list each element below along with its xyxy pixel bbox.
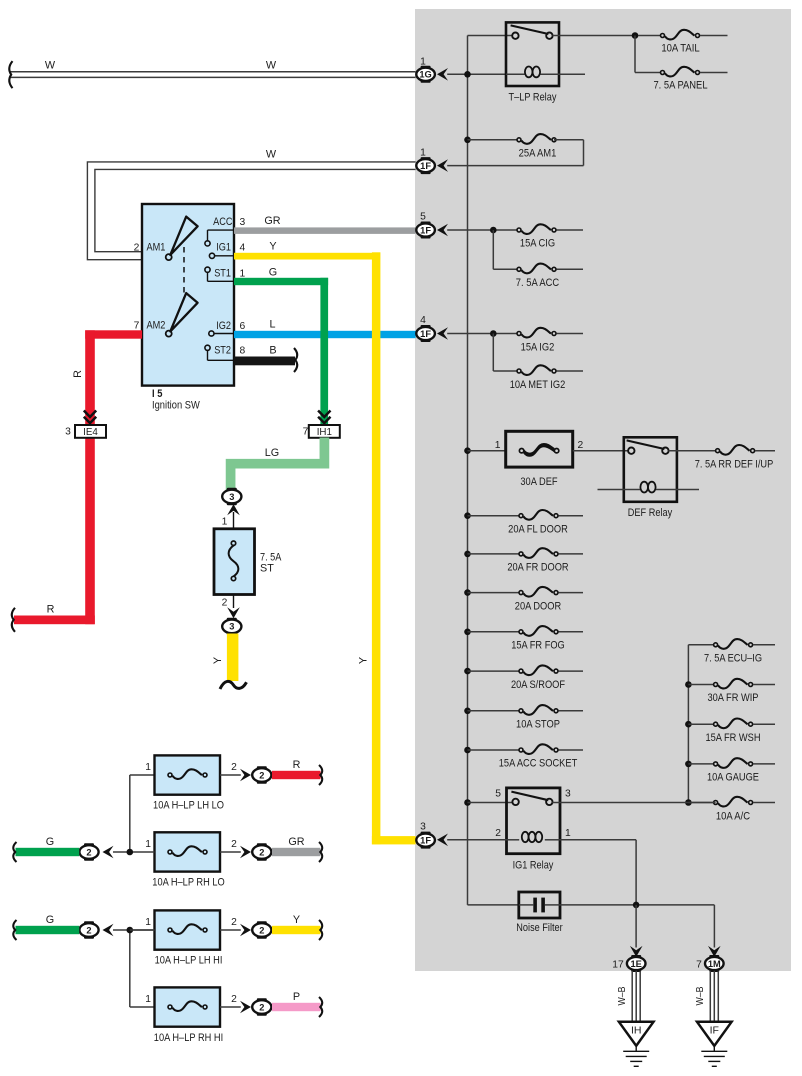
- fuse 15A ACC SOCKET: [523, 744, 553, 754]
- arrow into 1G: [437, 68, 448, 81]
- wire 20A FL DOOR out: [559, 515, 584, 517]
- relay IG1 switch blade: [511, 792, 548, 801]
- connector 1F (pin1): [416, 159, 435, 172]
- wire 10A GAUGE out: [753, 763, 775, 765]
- arrow chevrons into IH1: [318, 411, 330, 424]
- svg-text:30A FR WIP: 30A FR WIP: [708, 692, 759, 704]
- arrow out to right connector (10A H–LP RH LO): [240, 846, 251, 859]
- ignition IG2 contact: [209, 331, 214, 336]
- svg-text:2: 2: [231, 994, 237, 1005]
- svg-text:2: 2: [222, 598, 228, 609]
- wire DEF relay to RR DEF fuse: [668, 450, 717, 452]
- wire Y yellow below oval: [227, 634, 239, 682]
- fuse 20A FL DOOR: [523, 510, 553, 520]
- relay IG1 switch contacts: [512, 799, 518, 805]
- wire column to 10A A/C fuse: [688, 802, 715, 804]
- fuse 10A TAIL: [665, 30, 695, 40]
- ground triangle IF: [697, 1022, 732, 1046]
- connector 2 right (10A H–LP LH HI): [252, 923, 271, 937]
- wire 1F pin5 to CIG fuse: [447, 229, 519, 231]
- svg-text:7: 7: [134, 321, 140, 332]
- ignition ACC contact: [205, 241, 210, 246]
- junction dot trunk/DEF row: [464, 447, 471, 454]
- svg-text:2: 2: [259, 847, 264, 857]
- svg-text:10A H–LP LH LO: 10A H–LP LH LO: [153, 800, 224, 812]
- wire Y continuation squiggle: [220, 681, 247, 689]
- wire trunk to 10A STOP fuse: [468, 710, 522, 712]
- fuse 10A H–LP LH HI element: [172, 924, 202, 934]
- relay DEF switch contacts: [628, 448, 634, 454]
- ground triangle IH: [619, 1022, 654, 1046]
- svg-text:1E: 1E: [631, 959, 642, 969]
- svg-text:LG: LG: [265, 447, 279, 459]
- wire 15A ACC SOCKET out: [559, 749, 584, 751]
- wire ACC fuse out: [557, 268, 584, 270]
- svg-text:IF: IF: [710, 1025, 719, 1037]
- wire relay coil out right: [559, 73, 585, 75]
- svg-text:2: 2: [231, 762, 237, 773]
- svg-text:R: R: [293, 759, 301, 771]
- svg-text:15A ACC SOCKET: 15A ACC SOCKET: [499, 758, 578, 770]
- wire 10A H–LP LH HI right lead: [220, 929, 241, 931]
- wire 20A FR DOOR out: [559, 553, 584, 555]
- svg-text:3: 3: [229, 492, 234, 502]
- junction dot column/30A FR WIP row: [685, 681, 692, 688]
- fuse 15A IG2: [521, 328, 551, 338]
- svg-text:10A GAUGE: 10A GAUGE: [707, 772, 759, 784]
- connector 2 right (10A H–LP RH HI): [252, 1000, 271, 1014]
- svg-text:G: G: [46, 836, 54, 848]
- fuse box 10A H–LP LH LO: [155, 755, 221, 794]
- svg-text:AM2: AM2: [147, 320, 166, 332]
- wire H-LP branch LO pair: [129, 775, 131, 852]
- svg-text:2: 2: [578, 440, 584, 451]
- junction dot MET IG2 branch: [490, 330, 497, 337]
- svg-text:1F: 1F: [420, 835, 431, 845]
- svg-text:3: 3: [229, 622, 234, 632]
- wire trunk corner into noise filter: [468, 904, 519, 906]
- svg-text:IE4: IE4: [83, 427, 98, 438]
- arrow chevrons into IE4: [84, 411, 96, 424]
- wire 20A DOOR out: [559, 592, 584, 594]
- fuse 20A DOOR: [523, 587, 553, 597]
- relay DEF coil leads: [598, 489, 641, 491]
- wire CIG out: [557, 229, 584, 231]
- noise filter leads: [519, 904, 534, 906]
- fuse 10A STOP: [523, 705, 553, 715]
- ignition switch I5 box: [142, 204, 234, 386]
- wire Y stub y930: [272, 926, 321, 934]
- connector 2 left y852: [79, 845, 98, 859]
- wire G curl y930: [13, 920, 16, 940]
- wire 10A H–LP RH HI right lead: [220, 1006, 241, 1008]
- wire 30A FR WIP out: [753, 684, 775, 686]
- wire trunk to 25A AM1 fuse: [468, 139, 520, 141]
- arrow into left connector y930: [103, 924, 114, 937]
- svg-text:1F: 1F: [420, 225, 431, 235]
- svg-text:10A A/C: 10A A/C: [716, 811, 750, 823]
- wire RR DEF fuse out: [755, 450, 775, 452]
- connector 1M: [705, 957, 724, 970]
- arrow up into oval 3: [227, 504, 240, 515]
- svg-text:ST2: ST2: [214, 345, 231, 357]
- svg-text:R: R: [72, 370, 84, 378]
- svg-text:I 5: I 5: [152, 388, 162, 400]
- svg-text:2: 2: [259, 1002, 264, 1012]
- svg-text:1: 1: [145, 762, 151, 773]
- svg-text:2: 2: [259, 925, 264, 935]
- svg-text:3: 3: [565, 789, 571, 800]
- svg-text:5: 5: [495, 789, 501, 800]
- wire LG light-green run: [231, 438, 325, 491]
- svg-text:10A H–LP LH HI: 10A H–LP LH HI: [155, 955, 223, 967]
- svg-text:1: 1: [145, 917, 151, 928]
- wire trunk to 30A DEF: [468, 450, 506, 452]
- svg-text:17: 17: [612, 959, 624, 970]
- ignition ST1 contact: [205, 267, 210, 272]
- wire G green ST1 run: [234, 278, 328, 285]
- fuse 10A A/C: [718, 797, 748, 807]
- wire noise filter out to grounds: [560, 904, 714, 906]
- svg-text:2: 2: [495, 828, 501, 839]
- wire IG1 pin1 down: [560, 839, 636, 841]
- junction dot H-LP branch y852: [127, 849, 134, 856]
- junction dot trunk/AM1 row: [464, 137, 471, 144]
- fuse 7.5A ST box: [214, 529, 255, 595]
- relay T-LP switch contacts: [512, 33, 518, 39]
- relay DEF coil: [640, 482, 648, 493]
- svg-text:1M: 1M: [708, 959, 721, 969]
- noise filter capacitor plates: [533, 898, 537, 913]
- wire trunk to 15A ACC SOCKET fuse: [468, 749, 522, 751]
- svg-text:10A H–LP RH LO: 10A H–LP RH LO: [152, 877, 224, 889]
- junction dot trunk/20A FL DOOR row: [464, 512, 471, 519]
- svg-text:Y: Y: [358, 657, 370, 664]
- wire 20A S/ROOF out: [559, 670, 584, 672]
- wire G green stub y930: [16, 926, 80, 934]
- arrow out to right connector (10A H–LP LH HI): [240, 924, 251, 937]
- relay DEF box: [624, 437, 677, 502]
- wire branch down to PANEL fuse: [634, 36, 636, 73]
- wire 10A STOP out: [559, 710, 584, 712]
- svg-text:2: 2: [231, 917, 237, 928]
- svg-text:10A MET IG2: 10A MET IG2: [510, 379, 566, 391]
- wire GR curl y852: [319, 842, 322, 862]
- svg-text:1: 1: [145, 994, 151, 1005]
- wire R stub y775: [272, 771, 321, 779]
- svg-text:2: 2: [231, 839, 237, 850]
- svg-text:1F: 1F: [420, 329, 431, 339]
- svg-text:1: 1: [495, 440, 501, 451]
- wire P curl y1007: [319, 997, 322, 1017]
- svg-text:30A DEF: 30A DEF: [520, 476, 558, 488]
- relay T-LP coil: [525, 67, 533, 78]
- wire 1F pin3 to IG1 coil: [447, 839, 506, 841]
- wire branch to 7.5A ACC: [492, 230, 494, 269]
- connector oval 3 lower: [222, 620, 241, 634]
- svg-text:10A TAIL: 10A TAIL: [661, 43, 699, 55]
- svg-text:2: 2: [134, 243, 140, 254]
- arrow down into 1E: [630, 946, 643, 957]
- svg-text:W: W: [45, 60, 56, 72]
- fuse box 10A H–LP LH HI: [155, 910, 221, 949]
- svg-text:1G: 1G: [419, 70, 431, 80]
- svg-text:IH1: IH1: [317, 427, 332, 438]
- svg-text:10A H–LP RH HI: 10A H–LP RH HI: [154, 1032, 223, 1044]
- fuse 20A FR DOOR: [523, 548, 553, 558]
- arrow into 1F pin1: [437, 159, 448, 172]
- arrow into 1F pin4: [437, 327, 448, 340]
- svg-text:6: 6: [240, 321, 246, 332]
- svg-text:1: 1: [145, 839, 151, 850]
- junction dot column/10A A/C row: [685, 799, 692, 806]
- relay T-LP coil leads: [506, 73, 525, 75]
- svg-text:20A DOOR: 20A DOOR: [515, 600, 562, 612]
- connector oval 3 upper: [222, 490, 241, 504]
- fuse/relay box panel: [415, 9, 791, 971]
- svg-text:7. 5A RR DEF I/UP: 7. 5A RR DEF I/UP: [695, 459, 774, 471]
- fuse 7.5A PANEL: [665, 67, 695, 77]
- svg-text:1: 1: [420, 148, 426, 159]
- fuse 10A H–LP LH LO element: [172, 769, 202, 779]
- connector IH1 box: [309, 425, 340, 438]
- connector 1G: [416, 68, 435, 81]
- wire 10A A/C out: [753, 802, 775, 804]
- junction dot trunk/20A DOOR row: [464, 589, 471, 596]
- fuse 7. 5A ECU–IG: [718, 639, 748, 649]
- svg-text:8: 8: [240, 346, 246, 357]
- svg-text:7. 5A PANEL: 7. 5A PANEL: [653, 80, 707, 92]
- svg-text:P: P: [293, 991, 300, 1003]
- svg-text:Y: Y: [212, 657, 224, 664]
- svg-text:G: G: [269, 267, 277, 279]
- junction dot ACC branch: [490, 227, 497, 234]
- svg-text:T–LP Relay: T–LP Relay: [509, 92, 557, 104]
- relay DEF switch blade: [627, 440, 665, 449]
- svg-text:ST: ST: [260, 563, 274, 575]
- svg-text:15A CIG: 15A CIG: [520, 238, 555, 250]
- ground stem IH: [635, 1046, 637, 1052]
- wire 1G to trunk and relay coil: [447, 73, 506, 75]
- wire Y curl y930: [319, 920, 322, 940]
- svg-text:1: 1: [565, 828, 571, 839]
- wire B black ST2 stub: [234, 357, 295, 366]
- wire W battery feed (double line) to 1G: [9, 71, 416, 73]
- fuse 30A FR WIP: [718, 679, 748, 689]
- wire P stub y1007: [272, 1003, 321, 1011]
- svg-text:2: 2: [86, 847, 91, 857]
- ground bars IF: [701, 1050, 727, 1052]
- wire W-B triple to ground IH: [631, 971, 633, 1022]
- wire branch to 10A MET IG2: [492, 334, 494, 372]
- fusible link 30A DEF element: [524, 444, 555, 454]
- wire GR gray ACC to 1F pin5: [234, 227, 416, 234]
- ignition ST2 contact: [205, 345, 210, 350]
- svg-text:R: R: [47, 604, 55, 616]
- wire 10A H–LP LH LO right lead: [220, 774, 241, 776]
- junction dot trunk/IG1 relay row: [464, 799, 471, 806]
- arrow into 1F pin3: [437, 834, 448, 847]
- wire Y yellow IG1 run: [234, 253, 380, 260]
- svg-text:Y: Y: [293, 914, 300, 926]
- svg-text:G: G: [46, 914, 54, 926]
- wire 1F pin4 to IG2 fuse: [447, 333, 519, 335]
- junction dot trunk/20A FR DOOR row: [464, 551, 471, 558]
- svg-text:15A FR WSH: 15A FR WSH: [705, 732, 760, 744]
- fuse box 10A H–LP RH HI: [155, 987, 221, 1026]
- fuse 7.5A ST element: [229, 545, 239, 576]
- wire right column vertical: [687, 645, 689, 803]
- fuse 25A AM1: [521, 134, 551, 144]
- svg-text:5: 5: [420, 212, 426, 223]
- wire column to 15A FR WSH fuse: [688, 723, 715, 725]
- ignition AM1 key wedge: [170, 217, 197, 255]
- wire trunk to 20A FR DOOR fuse: [468, 553, 522, 555]
- wire IG2 fuse out: [557, 333, 584, 335]
- noise filter box: [519, 892, 560, 918]
- arrow out to right connector (10A H–LP LH LO): [240, 769, 251, 782]
- svg-text:W–B: W–B: [617, 986, 628, 1005]
- svg-text:1: 1: [222, 517, 228, 528]
- relay T-LP switch blade: [511, 25, 549, 34]
- svg-text:20A FR DOOR: 20A FR DOOR: [507, 562, 568, 574]
- svg-text:DEF Relay: DEF Relay: [628, 507, 673, 519]
- wire 15A FR WSH out: [753, 723, 775, 725]
- svg-text:3: 3: [65, 427, 71, 438]
- wire W continuation curl: [9, 61, 12, 88]
- ignition AM1 pivot: [166, 254, 172, 260]
- ignition dashed link: [183, 247, 185, 303]
- connector 1F (pin5): [416, 223, 435, 236]
- fuse 7.5A ACC: [521, 264, 551, 274]
- fuse 7.5A RR DEF I/UP: [720, 445, 750, 455]
- svg-text:IH: IH: [631, 1025, 642, 1037]
- fusible link 30A DEF box: [506, 431, 573, 467]
- svg-text:1F: 1F: [420, 161, 431, 171]
- svg-text:Ignition SW: Ignition SW: [152, 400, 200, 412]
- svg-text:IG1 Relay: IG1 Relay: [513, 860, 554, 872]
- wire column to 30A FR WIP fuse: [688, 684, 715, 686]
- connector 1E: [627, 957, 646, 970]
- fuse 10A GAUGE: [718, 758, 748, 768]
- wire 25A AM1 to 1F pin1: [554, 139, 584, 141]
- ignition AM2 key wedge: [170, 293, 197, 331]
- svg-text:W: W: [266, 60, 277, 72]
- arrow down into 1M: [708, 946, 721, 957]
- wire column corner to ECU-IG fuse: [688, 644, 715, 646]
- svg-text:L: L: [269, 319, 275, 331]
- junction dot 1E drop: [633, 902, 640, 909]
- wire R curl y775: [319, 765, 322, 785]
- connector IE4 box: [75, 425, 106, 438]
- ignition AM2 pivot: [166, 331, 172, 337]
- wire to 10A TAIL fuse: [638, 35, 663, 37]
- junction dot column/15A FR WSH row: [685, 721, 692, 728]
- svg-text:IG2: IG2: [216, 320, 231, 332]
- wire MET IG2 out: [557, 370, 584, 372]
- svg-text:20A S/ROOF: 20A S/ROOF: [511, 679, 565, 691]
- wire 7. 5A ECU–IG out: [753, 644, 775, 646]
- svg-text:2: 2: [86, 925, 91, 935]
- fuse 15A FR FOG: [523, 626, 553, 636]
- wire 7.5A PANEL out: [700, 72, 728, 74]
- fuse 10A H–LP RH HI element: [172, 1001, 202, 1011]
- wire 10A TAIL out: [700, 35, 728, 37]
- relay IG1 box: [507, 788, 561, 854]
- wire trunk vertical bus: [467, 36, 469, 905]
- wire LH HI box3 left lead: [130, 929, 155, 931]
- fuse 20A S/ROOF: [523, 665, 553, 675]
- wire W-B triple to ground IF: [709, 971, 711, 1022]
- ignition IG1 contact: [209, 253, 214, 258]
- svg-text:3: 3: [420, 822, 426, 833]
- wire IG1 relay switch out to A/C column: [552, 802, 715, 804]
- junction dot trunk/15A ACC SOCKET row: [464, 747, 471, 754]
- svg-text:W: W: [266, 149, 277, 161]
- svg-text:7. 5A ACC: 7. 5A ACC: [516, 277, 560, 289]
- relay IG1 coil leads: [507, 839, 520, 841]
- svg-text:GR: GR: [264, 215, 280, 227]
- connector 2 right (10A H–LP RH LO): [252, 845, 271, 859]
- fuse 15A CIG: [521, 224, 551, 234]
- wire column to 10A GAUGE fuse: [688, 763, 715, 765]
- wire 30A DEF to DEF relay: [573, 450, 632, 452]
- svg-text:W–B: W–B: [695, 986, 706, 1005]
- svg-text:25A AM1: 25A AM1: [519, 148, 557, 160]
- wire trunk to 20A FL DOOR fuse: [468, 515, 522, 517]
- wire H-LP branch HI pair: [129, 930, 131, 1007]
- wire L blue IG2 to 1F pin4: [234, 331, 416, 338]
- svg-text:20A FL DOOR: 20A FL DOOR: [508, 524, 568, 536]
- wire drop to 1E: [635, 905, 637, 948]
- wire left lead row y930: [113, 929, 155, 931]
- svg-text:15A IG2: 15A IG2: [521, 342, 555, 354]
- wire G curl y852: [13, 842, 16, 862]
- fuse box 10A H–LP RH LO: [155, 832, 221, 871]
- svg-text:IG1: IG1: [216, 242, 231, 254]
- svg-text:7. 5A ECU–IG: 7. 5A ECU–IG: [704, 653, 762, 665]
- relay IG1 coil: [522, 832, 529, 842]
- ground bars IH: [623, 1050, 649, 1052]
- wire trunk to 20A DOOR fuse: [468, 592, 522, 594]
- wire 15A FR FOG out: [559, 631, 584, 633]
- svg-text:Noise Filter: Noise Filter: [516, 922, 563, 934]
- wire G green stub y852: [16, 848, 80, 856]
- svg-text:4: 4: [420, 315, 426, 326]
- junction dot trunk/10A STOP row: [464, 708, 471, 715]
- svg-text:15A FR FOG: 15A FR FOG: [511, 640, 565, 652]
- connector 2 left y930: [79, 923, 98, 937]
- wire W ignition AM1 feed (double line): [87, 162, 415, 260]
- wire trunk to IG1 relay: [468, 802, 516, 804]
- arrow down to oval 3 lower: [227, 607, 240, 618]
- svg-text:2: 2: [259, 770, 264, 780]
- wire trunk top corner to T-LP relay: [468, 35, 516, 37]
- svg-text:10A STOP: 10A STOP: [516, 719, 560, 731]
- fuse 10A H–LP RH LO element: [172, 846, 202, 856]
- svg-text:ST1: ST1: [214, 268, 231, 280]
- wire R red AM2 run: [85, 330, 142, 338]
- wire drop to 1M: [713, 905, 715, 948]
- wire B end curl: [294, 348, 297, 372]
- fuse 15A FR WSH: [718, 719, 748, 729]
- arrow out to right connector (10A H–LP RH HI): [240, 1001, 251, 1014]
- svg-text:AM1: AM1: [147, 242, 166, 254]
- connector 1F (pin4): [416, 327, 435, 340]
- relay T-LP box: [506, 22, 559, 86]
- svg-text:Y: Y: [269, 241, 276, 253]
- wire R continuation curl: [12, 608, 15, 632]
